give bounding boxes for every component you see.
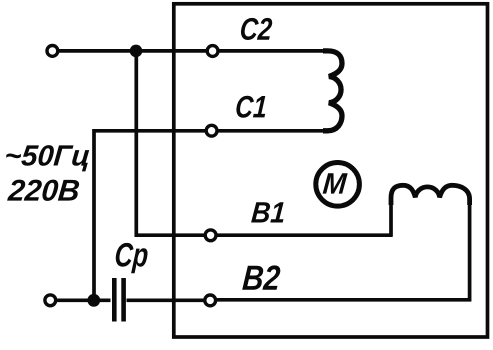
capacitor Cp left plate [112, 278, 117, 322]
wire: B winding left riser [389, 202, 393, 237]
wire: bottom supply terminal to capacitor [56, 298, 111, 302]
inductor: starting winding C2-C1 [323, 51, 342, 131]
label C2 [241, 18, 272, 40]
wire: C1 across and down to bottom junction [94, 131, 205, 300]
wire: C2 lead into C winding [218, 49, 325, 53]
motor symbol letter M [323, 173, 348, 193]
wire: B1 run to B winding [216, 233, 392, 237]
capacitor Cp right plate [121, 278, 126, 322]
wire: B winding right riser to B2 line [468, 199, 472, 302]
wire: B2 run to right riser [216, 298, 471, 302]
label B1 [251, 202, 284, 222]
terminal: supply bottom [45, 295, 56, 306]
terminal C2 [207, 46, 218, 57]
terminal C1 [206, 125, 217, 136]
wire: C1 lead into C winding [218, 129, 325, 133]
label B2 [242, 265, 280, 289]
label Cp (capacitor) [116, 243, 148, 273]
motor symbol circle [316, 163, 360, 207]
junction: bottom supply / C1 branch [87, 294, 100, 307]
label 220V [7, 180, 79, 201]
wire: capacitor to B2 terminal [127, 298, 205, 302]
motor housing box [174, 4, 488, 337]
label C1 [236, 96, 265, 118]
terminal B1 [205, 230, 216, 241]
terminal B2 [205, 295, 216, 306]
wire: junction down and across to B1 [136, 51, 204, 235]
inductor: running winding B1-B2 [391, 185, 470, 205]
wire: AC supply top line [58, 49, 206, 53]
junction: top supply / B1 branch [130, 45, 143, 58]
label ~50Hz [6, 145, 89, 171]
terminal: supply top [47, 46, 58, 57]
